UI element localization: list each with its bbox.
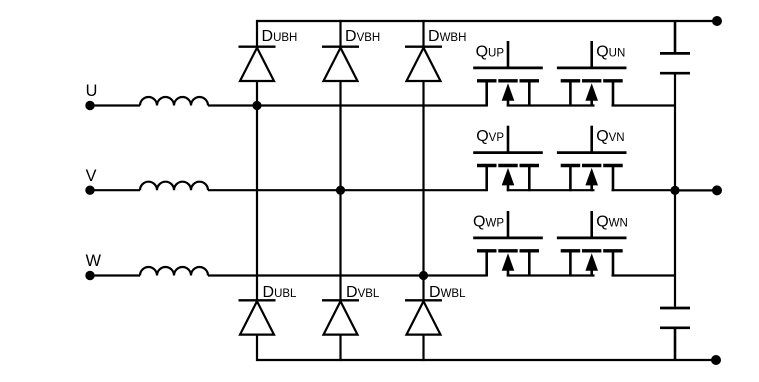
label QWN	[596, 214, 628, 231]
label QVP	[476, 128, 504, 145]
label QUN	[596, 44, 625, 61]
transistor QWP	[473, 211, 543, 277]
capacitor C2	[660, 308, 690, 328]
wire phase W to QWP drain	[208, 274, 487, 276]
terminal W	[85, 271, 94, 280]
wire QWP/QWN common source	[507, 274, 595, 276]
wire midpoint column	[674, 74, 676, 306]
capacitor C1 top lead	[674, 21, 677, 52]
label W	[86, 252, 102, 270]
transistor QUN	[557, 41, 627, 107]
label V	[86, 167, 97, 185]
wire U column	[256, 81, 258, 300]
wire W column	[422, 81, 424, 300]
label DUBH	[262, 28, 298, 45]
label U	[86, 82, 98, 100]
wire QWN to midpoint	[612, 274, 676, 276]
transistor QWN	[557, 211, 627, 277]
svg-text:U: U	[86, 82, 98, 100]
terminal V	[85, 186, 94, 195]
transistor QUP	[473, 41, 543, 107]
inductor LV	[140, 182, 208, 191]
terminal U	[85, 101, 94, 110]
diode DUBH	[239, 20, 276, 81]
wire QUN to midpoint	[612, 104, 676, 106]
diode DUBL	[239, 300, 276, 361]
svg-text:W: W	[86, 252, 102, 270]
diode DWBH	[405, 20, 442, 81]
wire DC- bottom rail	[257, 359, 716, 361]
wire W terminal to inductor	[90, 274, 140, 276]
terminal midpoint	[712, 185, 722, 195]
wire QUP/QUN common source	[507, 104, 595, 106]
wire V terminal to inductor	[90, 189, 140, 191]
wire phase U to QUP drain	[208, 104, 487, 106]
label QUP	[476, 44, 505, 61]
wire phase V to QVP drain	[208, 189, 487, 191]
junction node W	[419, 271, 428, 280]
junction node V	[336, 186, 345, 195]
inductor LW	[140, 267, 208, 276]
diode DWBL	[405, 300, 442, 361]
svg-text:V: V	[86, 167, 97, 185]
label DVBH	[345, 28, 380, 45]
diode DVBL	[322, 300, 359, 361]
terminal DC-	[711, 355, 721, 365]
wire DC+ top rail	[257, 20, 717, 22]
wire midpoint to terminal	[675, 189, 717, 191]
capacitor C1	[660, 53, 690, 73]
transistor QVP	[473, 126, 543, 192]
wire U terminal to inductor	[90, 104, 140, 106]
junction node U	[252, 101, 261, 110]
capacitor C2 bottom lead	[674, 329, 677, 360]
label DWBH	[428, 28, 466, 45]
inductor LU	[140, 97, 208, 106]
label DVBL	[346, 284, 380, 301]
label DUBL	[263, 284, 298, 301]
wire QVN to midpoint	[612, 189, 676, 191]
label DWBL	[429, 284, 466, 301]
transistor QVN	[557, 126, 627, 192]
label QVN	[596, 128, 624, 145]
terminal DC+	[712, 16, 722, 26]
wire QVP/QVN common source	[507, 189, 595, 191]
diode DVBH	[322, 20, 359, 81]
label QWP	[473, 214, 504, 231]
junction midpoint node	[670, 186, 679, 195]
wire V column	[339, 81, 341, 300]
